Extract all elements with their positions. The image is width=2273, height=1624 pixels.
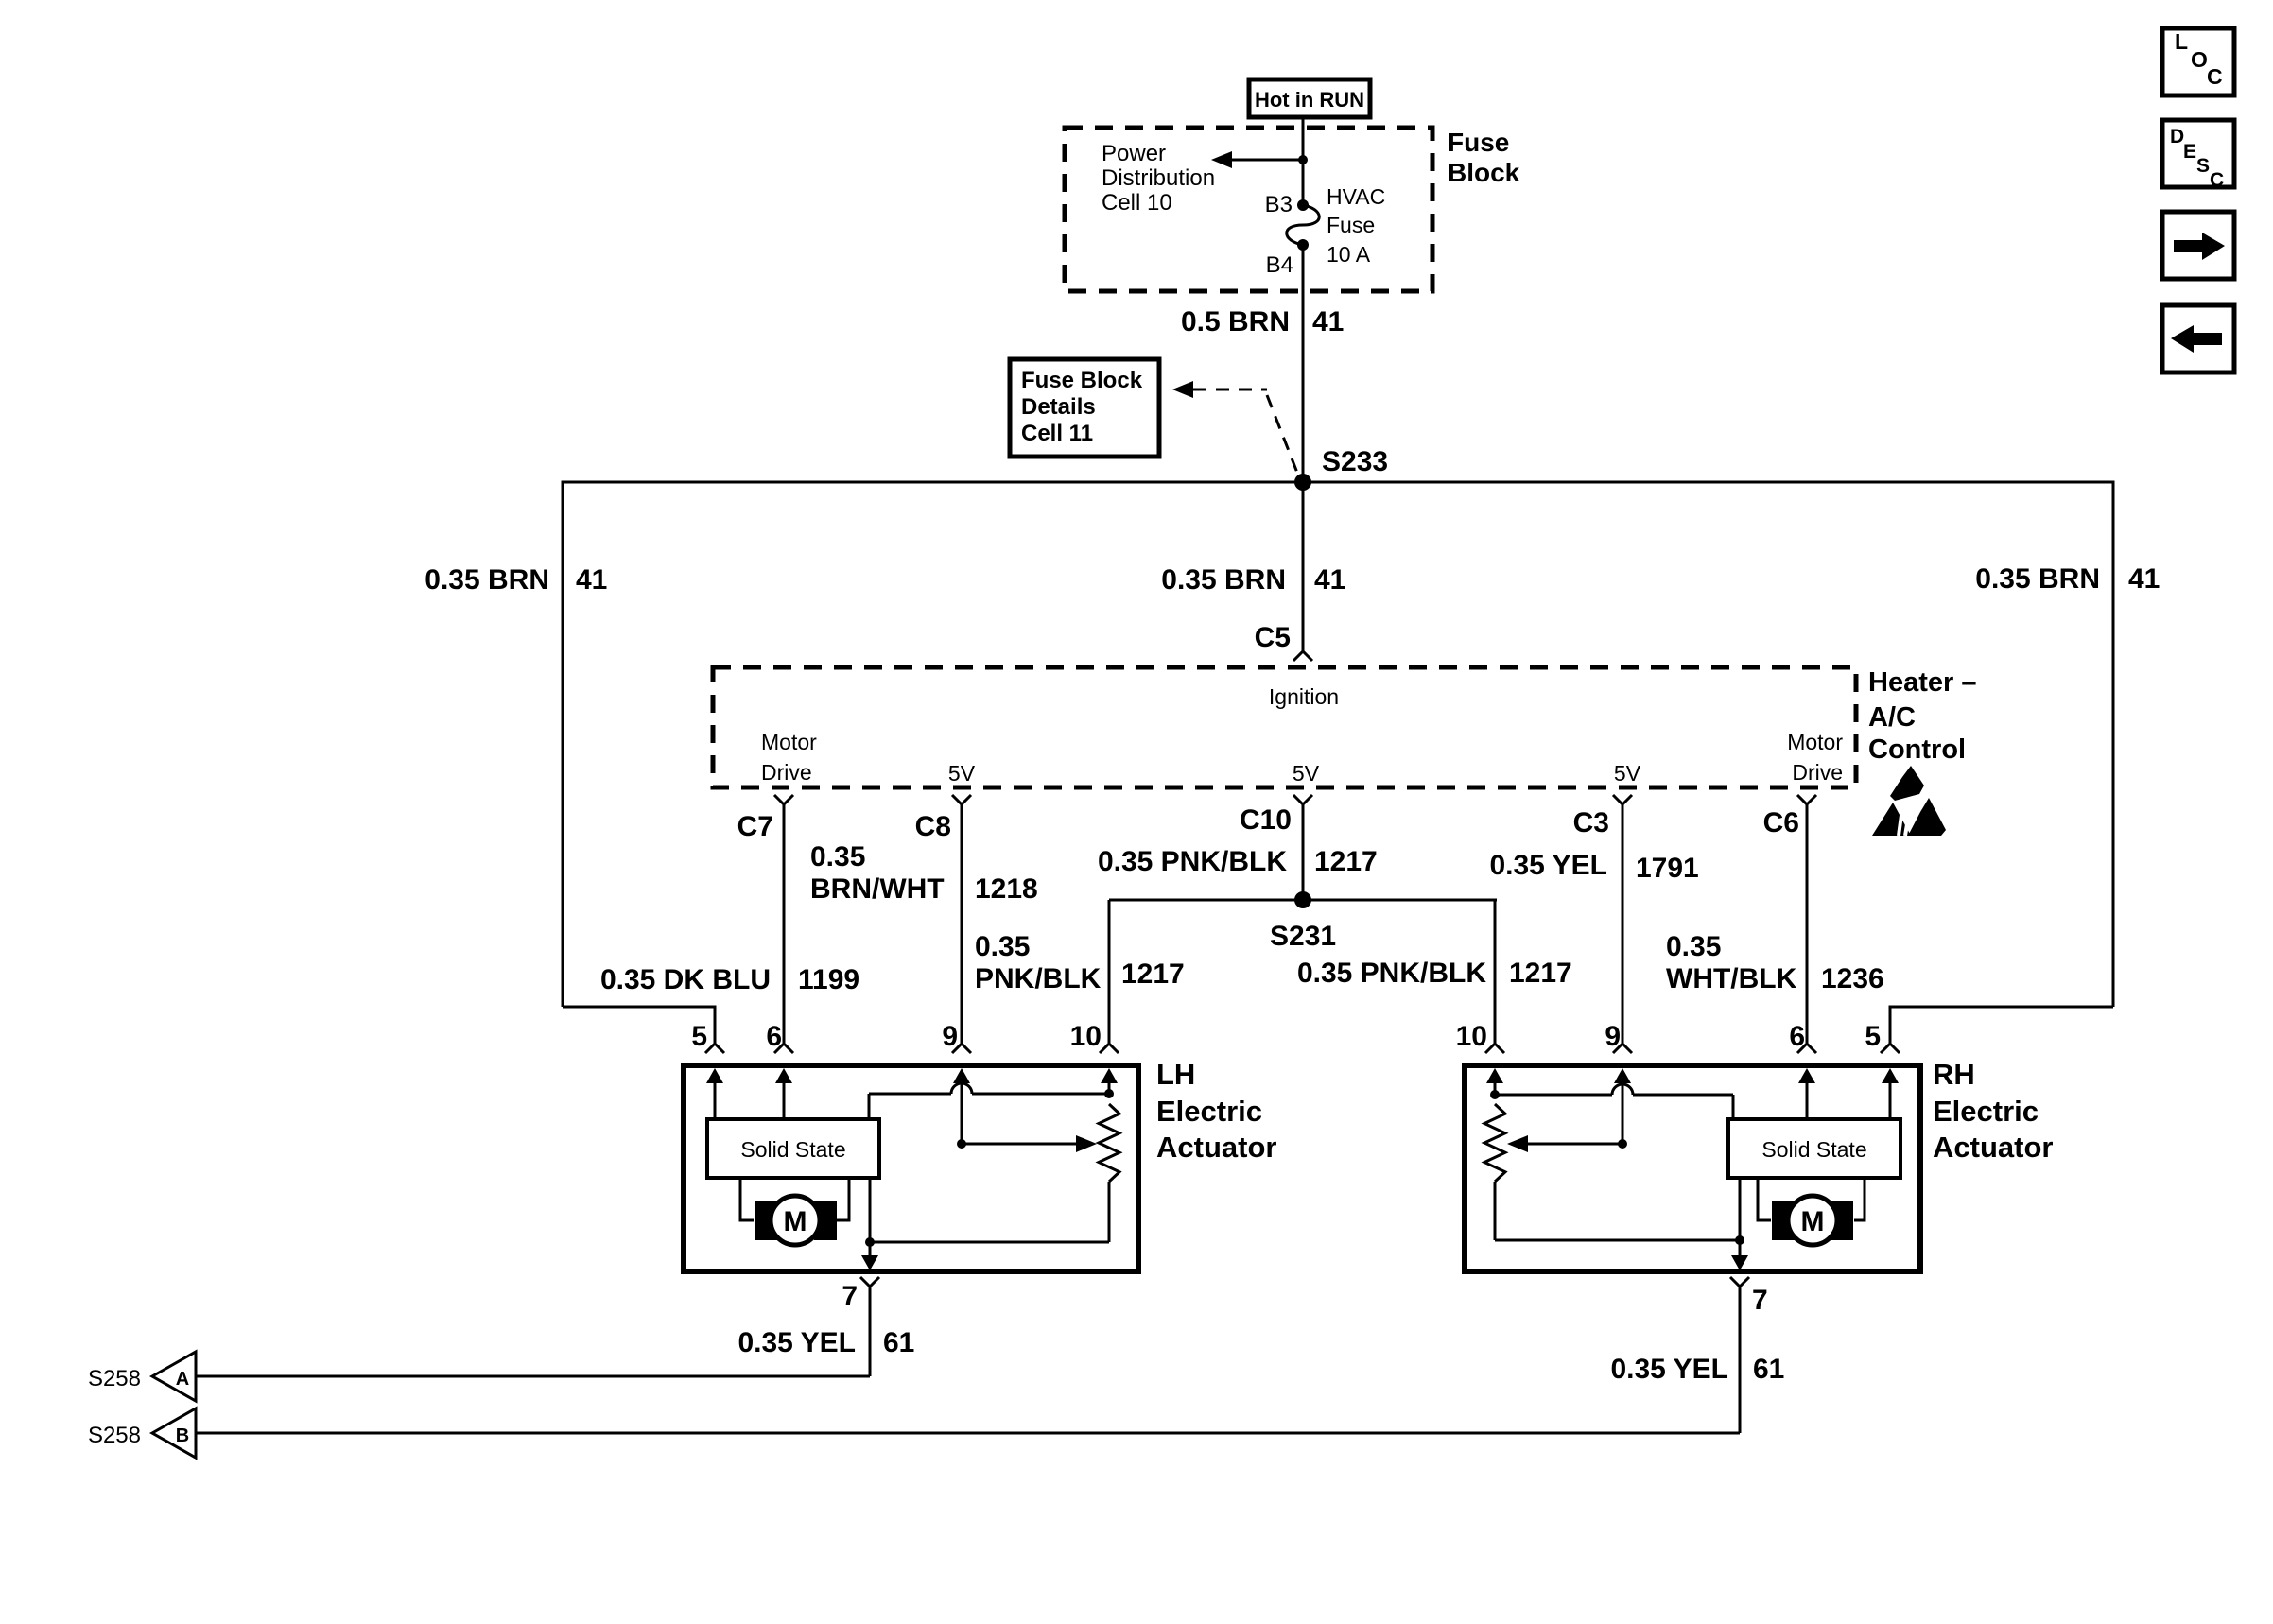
svg-text:7: 7 bbox=[842, 1281, 858, 1312]
svg-text:S258: S258 bbox=[88, 1423, 141, 1448]
svg-text:Cell 10: Cell 10 bbox=[1102, 190, 1172, 216]
svg-text:Control: Control bbox=[1868, 734, 1966, 765]
svg-text:Solid State: Solid State bbox=[740, 1137, 845, 1162]
svg-text:9: 9 bbox=[1605, 1021, 1621, 1052]
svg-text:7: 7 bbox=[1752, 1285, 1768, 1316]
svg-text:D: D bbox=[2170, 126, 2184, 147]
svg-text:RH: RH bbox=[1933, 1058, 1975, 1091]
svg-text:E: E bbox=[2183, 141, 2196, 163]
svg-text:Actuator: Actuator bbox=[1933, 1131, 2053, 1164]
svg-text:Drive: Drive bbox=[1792, 760, 1843, 785]
svg-text:M: M bbox=[784, 1206, 807, 1237]
svg-text:Details: Details bbox=[1021, 394, 1096, 420]
svg-text:Fuse Block: Fuse Block bbox=[1021, 368, 1143, 393]
svg-text:Hot in RUN: Hot in RUN bbox=[1255, 88, 1364, 112]
svg-text:0.35 PNK/BLK: 0.35 PNK/BLK bbox=[1297, 958, 1486, 989]
svg-text:5V: 5V bbox=[948, 761, 976, 786]
svg-text:M: M bbox=[1801, 1206, 1825, 1237]
svg-text:C10: C10 bbox=[1240, 804, 1292, 836]
svg-text:Drive: Drive bbox=[761, 760, 812, 785]
svg-text:Distribution: Distribution bbox=[1102, 165, 1215, 191]
svg-text:0.35 BRN: 0.35 BRN bbox=[1161, 564, 1286, 596]
svg-text:Motor: Motor bbox=[1787, 730, 1843, 754]
svg-text:Electric: Electric bbox=[1156, 1095, 1262, 1128]
svg-text:WHT/BLK: WHT/BLK bbox=[1666, 963, 1797, 994]
svg-text:41: 41 bbox=[1312, 306, 1344, 337]
svg-text:A: A bbox=[176, 1369, 189, 1390]
svg-text:6: 6 bbox=[766, 1021, 782, 1052]
svg-text:S258: S258 bbox=[88, 1366, 141, 1391]
svg-text:0.35 DK BLU: 0.35 DK BLU bbox=[600, 964, 771, 995]
svg-text:0.5 BRN: 0.5 BRN bbox=[1181, 306, 1290, 337]
svg-text:1217: 1217 bbox=[1314, 846, 1378, 877]
svg-text:Block: Block bbox=[1448, 158, 1520, 187]
svg-text:1218: 1218 bbox=[975, 873, 1038, 905]
svg-text:0.35 BRN: 0.35 BRN bbox=[1975, 563, 2100, 595]
svg-text:BRN/WHT: BRN/WHT bbox=[810, 873, 945, 905]
svg-text:5: 5 bbox=[691, 1021, 707, 1052]
svg-text:1791: 1791 bbox=[1636, 853, 1699, 884]
svg-text:9: 9 bbox=[942, 1021, 958, 1052]
svg-text:C5: C5 bbox=[1255, 622, 1291, 653]
svg-text:PNK/BLK: PNK/BLK bbox=[975, 963, 1102, 994]
svg-text:L: L bbox=[2175, 29, 2188, 54]
svg-text:61: 61 bbox=[1753, 1354, 1784, 1385]
svg-text:C: C bbox=[2210, 169, 2224, 191]
svg-text:0.35 BRN: 0.35 BRN bbox=[425, 564, 549, 596]
svg-text:41: 41 bbox=[576, 564, 607, 596]
svg-text:Heater –: Heater – bbox=[1868, 667, 1976, 698]
svg-text:S233: S233 bbox=[1322, 446, 1388, 477]
svg-text:C3: C3 bbox=[1573, 807, 1609, 838]
svg-text:Actuator: Actuator bbox=[1156, 1131, 1276, 1164]
svg-text:0.35 YEL: 0.35 YEL bbox=[737, 1327, 856, 1358]
svg-text:1199: 1199 bbox=[798, 964, 859, 995]
svg-text:Power: Power bbox=[1102, 141, 1166, 166]
svg-text:5V: 5V bbox=[1614, 761, 1641, 786]
svg-text:B: B bbox=[176, 1425, 189, 1446]
svg-text:10: 10 bbox=[1456, 1021, 1487, 1052]
svg-text:0.35 YEL: 0.35 YEL bbox=[1610, 1354, 1728, 1385]
svg-text:HVAC: HVAC bbox=[1327, 184, 1385, 209]
svg-text:5: 5 bbox=[1865, 1021, 1881, 1052]
svg-text:C8: C8 bbox=[915, 811, 951, 842]
svg-text:41: 41 bbox=[1314, 564, 1345, 596]
svg-text:10: 10 bbox=[1070, 1021, 1102, 1052]
svg-text:Solid State: Solid State bbox=[1761, 1137, 1866, 1162]
svg-text:Fuse: Fuse bbox=[1448, 128, 1509, 157]
svg-text:0.35 PNK/BLK: 0.35 PNK/BLK bbox=[1098, 846, 1287, 877]
svg-text:Fuse: Fuse bbox=[1327, 213, 1375, 237]
svg-text:C6: C6 bbox=[1763, 807, 1799, 838]
svg-text:Ignition: Ignition bbox=[1269, 684, 1339, 709]
svg-text:1236: 1236 bbox=[1821, 963, 1884, 994]
svg-text:Cell 11: Cell 11 bbox=[1021, 421, 1093, 446]
svg-text:10 A: 10 A bbox=[1327, 242, 1371, 267]
svg-text:S231: S231 bbox=[1270, 921, 1336, 952]
svg-text:C: C bbox=[2207, 64, 2223, 89]
svg-text:O: O bbox=[2191, 47, 2208, 72]
svg-text:Electric: Electric bbox=[1933, 1095, 2039, 1128]
svg-text:Motor: Motor bbox=[761, 730, 817, 754]
svg-text:LH: LH bbox=[1156, 1058, 1195, 1091]
svg-text:C7: C7 bbox=[737, 811, 773, 842]
svg-text:A/C: A/C bbox=[1868, 702, 1916, 733]
svg-text:6: 6 bbox=[1789, 1021, 1805, 1052]
svg-text:0.35 YEL: 0.35 YEL bbox=[1489, 850, 1607, 881]
svg-text:61: 61 bbox=[883, 1327, 914, 1358]
svg-text:S: S bbox=[2196, 155, 2210, 177]
svg-text:0.35: 0.35 bbox=[1666, 931, 1721, 962]
svg-text:B3: B3 bbox=[1265, 192, 1293, 217]
svg-text:0.35: 0.35 bbox=[975, 931, 1030, 962]
svg-text:41: 41 bbox=[2128, 563, 2160, 595]
svg-text:0.35: 0.35 bbox=[810, 841, 865, 872]
svg-text:5V: 5V bbox=[1293, 761, 1320, 786]
svg-text:1217: 1217 bbox=[1509, 958, 1572, 989]
svg-text:B4: B4 bbox=[1266, 252, 1293, 278]
svg-text:1217: 1217 bbox=[1121, 959, 1185, 990]
